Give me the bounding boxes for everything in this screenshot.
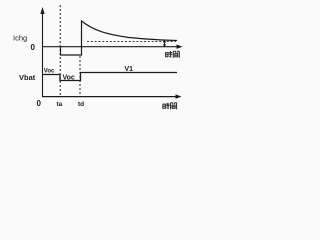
svg-text:ta: ta bbox=[57, 101, 63, 108]
svg-text:0: 0 bbox=[31, 43, 36, 52]
svg-text:Vbat: Vbat bbox=[19, 73, 36, 82]
svg-text:V1: V1 bbox=[125, 66, 134, 73]
svg-text:Ichg: Ichg bbox=[13, 34, 27, 43]
svg-text:Voc: Voc bbox=[63, 75, 75, 82]
svg-text:0: 0 bbox=[37, 99, 42, 108]
svg-text:Voc: Voc bbox=[44, 69, 55, 75]
svg-text:td: td bbox=[78, 101, 84, 108]
